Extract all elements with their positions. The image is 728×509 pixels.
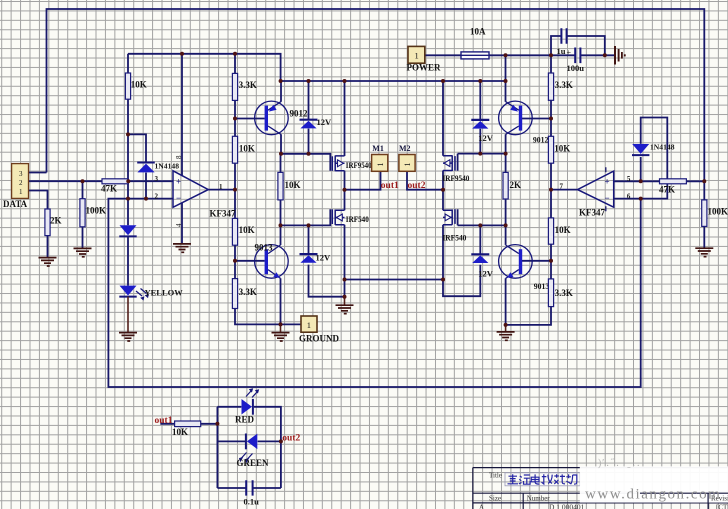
node: bottom rail left (343, 278, 347, 282)
node: gate row R bottom / zener (478, 223, 482, 227)
svg-text:8: 8 (175, 155, 183, 159)
svg-text:−: − (176, 193, 181, 203)
wire: IRF540 right gate row (458, 209, 506, 225)
node: 9013L base (233, 259, 237, 263)
svg-text:Title: Title (489, 472, 502, 480)
wire: left driver column x235 (235, 54, 281, 325)
svg-text:10K: 10K (172, 427, 188, 437)
svg-text:IRF9540: IRF9540 (442, 173, 469, 183)
svg-text:9013: 9013 (255, 243, 274, 253)
svg-text:12V: 12V (316, 253, 332, 263)
svg-text:www.diangon.com: www.diangon.com (585, 487, 721, 503)
node: left bridge ground node (343, 295, 347, 299)
svg-text:1N4148: 1N4148 (155, 162, 180, 171)
svg-text:+: + (605, 177, 610, 187)
node: gate row R top / zener (478, 152, 482, 156)
resistor 3.3K (left driver bottom) (232, 279, 256, 309)
resistor 3.3K (left driver top) (232, 73, 256, 100)
node: cap loop right / power port (603, 53, 607, 57)
node: gate row L top / zener (307, 152, 311, 156)
svg-text:9012: 9012 (290, 109, 309, 119)
svg-text:2: 2 (19, 179, 23, 187)
title block (473, 468, 728, 509)
node: 9012R base (549, 117, 553, 121)
wire: left top rail y54 (128, 54, 281, 81)
svg-text:0.1u: 0.1u (244, 497, 260, 507)
svg-text:10K: 10K (239, 143, 255, 153)
diode 1N4148 (right, pointing down) (632, 143, 675, 156)
connector M1 (372, 144, 388, 171)
watermark www.diangon.com text (585, 487, 721, 503)
wire: left bridge column x344.5 (344, 81, 346, 297)
svg-text:3.3K: 3.3K (239, 287, 257, 297)
ground (9013 left emitter node) (272, 324, 290, 341)
svg-text:12V: 12V (478, 133, 494, 143)
svg-text:YELLOW: YELLOW (145, 288, 184, 298)
transistor Q3 9012 (right top PNP, mirrored) (499, 101, 549, 145)
svg-text:5: 5 (627, 175, 631, 183)
svg-text:1N4148: 1N4148 (650, 143, 675, 152)
node: pin6 / bracket (639, 197, 643, 201)
transistor Q4 9013 (right bottom NPN, mirrored) (499, 245, 550, 291)
node: 9013L emitter ground node (279, 322, 283, 326)
wire: 9013 right emitter to ground node (505, 278, 507, 325)
node: LED 10K / frame left (215, 422, 219, 426)
svg-text:M2: M2 (399, 144, 411, 153)
zener 12V (upper-right) (471, 120, 494, 143)
svg-text:1: 1 (415, 51, 419, 61)
svg-text:100K: 100K (86, 206, 107, 216)
resistor 10K (LED series) (172, 421, 201, 437)
svg-text:out1: out1 (381, 181, 399, 191)
svg-text:10A: 10A (470, 27, 486, 37)
svg-text:3: 3 (155, 175, 159, 183)
svg-text:2K: 2K (50, 216, 62, 226)
svg-text:IRF9540: IRF9540 (346, 160, 372, 170)
resistor 10K (left driver lower mid) (232, 218, 254, 245)
node: gate row R bottom / collector (504, 223, 508, 227)
wire: right driver column x551 (506, 55, 551, 325)
ground (op-amp1 pin4) (173, 244, 191, 252)
op-amp U2 KF347 (right, mirrored) (560, 167, 631, 217)
transistor Q2 9013 (left bottom NPN) (255, 243, 289, 279)
fuse 10A (461, 27, 489, 59)
wire: 9012 right collector row to IRF9540 gate (458, 134, 506, 171)
wire: left 10K driver resistor leads (280, 154, 282, 226)
svg-text:12V: 12V (317, 117, 333, 127)
zener 12V (lower-left) (300, 253, 332, 263)
node: fuse out / power feed (504, 53, 508, 57)
wire: right 2K driver resistor leads (505, 154, 507, 226)
svg-text:GROUND: GROUND (299, 334, 339, 344)
node: 47K right / op-amp pin3 (126, 179, 130, 183)
resistor 10K (left gate pulldown) (278, 172, 301, 200)
svg-text:10K: 10K (554, 143, 570, 153)
wire: op-amp2 pin5 row to 47K (614, 180, 705, 182)
wire: 9012 right emitter to rail (505, 81, 507, 102)
svg-text:IRF540: IRF540 (346, 214, 369, 224)
wire: 100K pulldown branch (82, 181, 84, 248)
svg-text:7: 7 (560, 182, 564, 190)
wire: +12V rail y81 (281, 80, 506, 82)
wire: out2 rail from M2 to right bridge mid (407, 171, 443, 189)
resistor 2K (right gate pulldown) (503, 172, 521, 199)
resistor 100K (input divider) (80, 199, 106, 227)
node: cap loop left (549, 53, 553, 57)
svg-text:1: 1 (403, 163, 412, 167)
wire: right bridge column x443 (442, 81, 444, 280)
wire: lower-right 12V zener loop (443, 225, 480, 296)
wire: op-amp1 pin8 power lead (181, 54, 183, 176)
svg-text:1u: 1u (557, 46, 566, 56)
wire: right 100K leads (703, 181, 705, 248)
wire: DATA pin3 stub (29, 172, 47, 174)
node: 9013R base (549, 259, 553, 263)
wire: op-amp1 output pin1 (208, 189, 235, 191)
node: left column / clamp branch (126, 132, 130, 136)
LED RED (pointing right) (235, 388, 259, 424)
wire: right 1N4148 and bracket to pin6 (641, 118, 668, 199)
wire: out1 rail from bridge mid to M1 (345, 171, 381, 189)
svg-text:1: 1 (307, 320, 311, 330)
svg-text:KF347: KF347 (210, 209, 236, 219)
wire: 9012 left collector row to IRF9540 gate (281, 134, 330, 171)
svg-text:M1: M1 (372, 144, 384, 153)
node: rail81 / zener R (478, 79, 482, 83)
svg-text:DATA: DATA (3, 199, 28, 209)
resistor 10K (right driver upper mid) (548, 136, 570, 163)
node: rail81 / zener L (307, 79, 311, 83)
svg-text:1: 1 (376, 163, 385, 167)
net label out2 (LED block) (282, 434, 300, 444)
wire: op-amp1 pin4 lead to ground (181, 203, 183, 244)
svg-text:−: − (605, 193, 610, 203)
zener 12V (upper-left) (300, 117, 333, 128)
node: 47K right / 100K / right tall wire (702, 179, 706, 183)
wire: op-amp2 output pin7 (551, 189, 578, 191)
resistor 10K (left column top) (125, 73, 146, 99)
capacitor 0.1u (244, 480, 260, 506)
svg-text:KF347: KF347 (579, 208, 605, 218)
svg-text:out1: out1 (155, 416, 173, 426)
net label out2 (408, 181, 426, 191)
resistor 10K (left driver upper mid) (232, 136, 255, 163)
node: out2 at bridge (441, 188, 445, 192)
net label out1 (LED block) (155, 416, 173, 426)
connector GROUND (299, 316, 339, 344)
svg-text:9013: 9013 (534, 282, 550, 291)
wire: 9013 left base lead (235, 260, 265, 262)
mosfet IRF9540 (left high side) (332, 156, 371, 172)
mosfet IRF540 (right low side, mirrored) (442, 209, 466, 242)
svg-text:2K: 2K (510, 180, 522, 190)
svg-text:3.3K: 3.3K (555, 80, 573, 90)
node: bottom rail right (441, 278, 445, 282)
wire: lower-left 12V zener loop (309, 225, 345, 296)
node: 9013R emitter ground node (504, 323, 508, 327)
wire: 9013 right collector (505, 225, 507, 245)
svg-text:4: 4 (175, 223, 183, 227)
node: op2 output (549, 188, 553, 192)
connector M2 (399, 144, 415, 171)
diode 1N4148 (input clamp, cathode up) (137, 162, 179, 173)
resistor 47K (input series) (101, 179, 128, 194)
connector POWER (407, 46, 442, 72)
capacitor 1u (polarized) (557, 28, 572, 57)
svg-text:3.3K: 3.3K (239, 80, 257, 90)
node: rail81 corner (279, 79, 283, 83)
svg-text:+: + (567, 48, 572, 57)
svg-text:3: 3 (19, 170, 23, 178)
svg-text:47K: 47K (659, 185, 675, 195)
svg-text:IRF540: IRF540 (442, 233, 466, 243)
svg-text:100K: 100K (708, 207, 728, 217)
LED GREEN (pointing left) (237, 434, 270, 468)
ground (under right 100K) (695, 248, 713, 256)
watermark background band (580, 458, 728, 509)
node: rail54 / left driver column (233, 52, 237, 56)
wire: 9013 left emitter down to ground node (280, 278, 282, 324)
ground (left bridge bottom) (336, 297, 354, 314)
svg-text:Number: Number (527, 495, 551, 503)
node: pin2 row / clamp diode (144, 197, 148, 201)
svg-text:12V: 12V (478, 269, 494, 279)
mosfet IRF9540 (right high side, mirrored) (442, 155, 469, 183)
ground (under 100K) (74, 248, 92, 256)
node: rail81 / right bridge (441, 79, 445, 83)
svg-text:[CT: [CT (716, 504, 728, 509)
node: gate row L bottom / collector 9013 (279, 223, 283, 227)
ground (under 2K) (39, 258, 57, 266)
svg-text:RED: RED (235, 414, 255, 424)
wire: upper-right 12V zener leads (479, 81, 481, 154)
zener 12V (lower-right) (471, 254, 494, 278)
node: out2 / frame right (279, 439, 283, 443)
title text 直流电机驱动 (drawn strokes) (508, 474, 577, 484)
svg-text:D 1 000401: D 1 000401 (549, 503, 585, 509)
wire: upper-left 12V zener leads (308, 81, 310, 154)
wire: bridge bottom rail (345, 279, 444, 281)
svg-text:Size: Size (489, 495, 501, 503)
node: out1 at bridge (343, 188, 347, 192)
svg-text:10K: 10K (555, 225, 571, 235)
node: 9012L base (233, 117, 237, 121)
LED YELLOW (pointing down) (119, 286, 183, 301)
wire: 9012 left base lead (235, 118, 265, 120)
node: DATA pin2 / 100K (81, 179, 85, 183)
svg-text:1: 1 (219, 183, 223, 191)
resistor 10K (right driver lower mid) (548, 218, 570, 244)
wire: GROUND connector stub (281, 323, 302, 325)
wire: op-amp1 pin2 row and long feedback loop to op-amp2 pin6 (108, 199, 640, 387)
ground (under YELLOW led) (119, 297, 137, 341)
resistor 3.3K (right driver bottom) (548, 279, 572, 307)
ground (9013 right emitter) (497, 325, 515, 340)
svg-text:2: 2 (155, 193, 159, 201)
diode (left column, pointing down) (119, 225, 136, 236)
node: rail54 / pin8 (180, 52, 184, 56)
wire: 9012 left emitter to rail (280, 81, 282, 102)
svg-text:6: 6 (627, 193, 631, 201)
wire: top loop from DATA pin3 up, across top, down right side (47, 9, 705, 181)
wire: 1u capacitor loop (551, 36, 605, 55)
wire: 9013 right base lead (522, 260, 551, 262)
wire: DATA pin1 stub down to 2K (29, 191, 48, 258)
node: pin2 row / left column (126, 197, 130, 201)
svg-text:out2: out2 (408, 181, 426, 191)
wire: branch to 1N4148 clamp diode (128, 134, 146, 198)
svg-text:10K: 10K (131, 80, 147, 90)
resistor 3.3K (right driver top) (548, 73, 572, 100)
transistor Q1 9012 (left top PNP) (255, 101, 308, 135)
connector DATA (3, 164, 29, 209)
node: gate row R top / collector (504, 152, 508, 156)
svg-text:9012: 9012 (533, 136, 549, 145)
svg-text:out2: out2 (282, 434, 300, 444)
wire: POWER connector to fuse to power port (425, 54, 614, 56)
capacitor 100u (567, 48, 585, 73)
wire: out1 LED resistor lead (160, 423, 217, 425)
node: pin5 / diode R (639, 179, 643, 183)
svg-text:GREEN: GREEN (237, 458, 270, 468)
wire: IRF540 left gate row (281, 209, 331, 225)
wire: 9013 left collector (280, 225, 282, 245)
svg-text:47K: 47K (101, 184, 117, 194)
svg-text:) ʹ . ​˝ . ​ . ˍ . .: ) ʹ . ​˝ . ​ . ˍ . . (598, 458, 640, 469)
resistor 47K (right feedback) (659, 179, 686, 195)
resistor 2K (DATA pulldown) (45, 209, 62, 236)
wire: DATA pin2 row to 47K and op-amp pin3 (29, 180, 174, 182)
node: op1 output (233, 188, 237, 192)
wire: left column through 10K, diodes to ground (127, 54, 129, 286)
node: gate row L top / collector (279, 152, 283, 156)
svg-text:100u: 100u (567, 63, 585, 73)
svg-text:1: 1 (19, 188, 23, 196)
wire: power feed from fuse down to rail (505, 55, 507, 81)
svg-text:A: A (479, 504, 484, 509)
svg-text:10K: 10K (239, 225, 255, 235)
svg-text:+: + (176, 177, 181, 187)
wire: LED block frame (217, 407, 281, 488)
node: rail81 / power feed (504, 79, 508, 83)
net label out1 (381, 181, 399, 191)
op-amp U1 KF347 (left) (155, 155, 236, 227)
wire: 9012 right base lead (522, 118, 551, 120)
svg-text:3.3K: 3.3K (555, 288, 573, 298)
mosfet IRF540 (left low side) (332, 209, 369, 225)
resistor 100K (right divider) (702, 200, 728, 227)
power port VCC bar (right of caps) (615, 46, 625, 65)
node: rail81 / left bridge (343, 79, 347, 83)
svg-text:POWER: POWER (407, 63, 442, 73)
svg-text:10K: 10K (285, 180, 301, 190)
node: gate row L bottom / zener (307, 223, 311, 227)
